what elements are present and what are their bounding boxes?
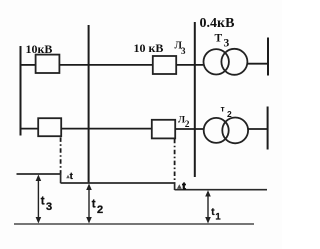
wire T3 to right bus [247, 63, 268, 65]
label t1 [211, 207, 221, 223]
wire row2 bus to breaker [20, 128, 38, 130]
svg-text:т: т [221, 103, 225, 113]
breaker L3 [153, 56, 176, 74]
label delta-t at t3 step [66, 171, 73, 181]
transformer T2 primary winding [204, 118, 229, 143]
svg-text:10кВ: 10кВ [26, 42, 53, 56]
transformer T3 secondary winding [221, 49, 247, 75]
svg-text:10 кВ: 10 кВ [134, 41, 164, 55]
transformer T2 secondary winding [222, 117, 248, 143]
label t3 [41, 196, 52, 213]
wire time-step t3 level line [17, 173, 62, 175]
bus 0.4kV right busbar row1 [267, 38, 269, 76]
transformer T3 primary winding [204, 49, 229, 74]
wire L3 to transformer T3 [176, 64, 204, 66]
wire step drop t2 to t1 [174, 182, 176, 190]
bus 10kV left vertical busbar [20, 46, 22, 136]
svg-text:2: 2 [185, 120, 190, 130]
svg-text:t: t [92, 199, 96, 211]
wire row2 breaker to breaker L2 [61, 128, 152, 130]
svg-text:t: t [41, 196, 45, 208]
breaker row1 left [36, 55, 60, 73]
dimension arrow t2 [86, 184, 92, 224]
wire step drop t3 to t2 [60, 173, 62, 183]
dimension arrow t1 [205, 190, 211, 223]
label line L2 [178, 116, 190, 130]
svg-text:0.4кВ: 0.4кВ [200, 16, 235, 31]
svg-text:Т: Т [215, 32, 223, 44]
bus 0.4kV right busbar row2 [267, 107, 269, 150]
label delta-t at t2 step [177, 180, 186, 192]
wire T2 to right bus [248, 128, 268, 130]
svg-text:2: 2 [227, 109, 232, 119]
svg-text:3: 3 [46, 201, 52, 213]
svg-text:t: t [182, 180, 186, 192]
label transformer T2 [221, 103, 233, 119]
wire time-step t2 level line [61, 182, 176, 184]
label line L3 [175, 40, 187, 56]
wire feeder line right vertical [194, 22, 196, 177]
wire L2 to transformer T2 [175, 128, 204, 130]
dimension arrow t3 [36, 175, 42, 224]
wire row1 breaker to breaker L3 [60, 64, 153, 66]
label transformer T3 [215, 32, 230, 49]
wire feeder line middle vertical [88, 25, 90, 183]
svg-text:t: t [70, 171, 73, 181]
breaker row2 left [38, 118, 61, 136]
svg-text:2: 2 [97, 204, 103, 216]
wire row1 bus to breaker [20, 64, 36, 66]
svg-text:3: 3 [181, 46, 186, 56]
wire dashed drop from breaker L2 [174, 139, 176, 183]
wire dashed drop from row2 left breaker [60, 137, 62, 173]
label t2 [92, 199, 103, 217]
svg-text:1: 1 [215, 212, 221, 223]
breaker L2 [152, 120, 175, 139]
wire time-step t1 level line [175, 189, 267, 191]
svg-text:3: 3 [224, 38, 230, 50]
wire zero time reference line [14, 223, 254, 225]
